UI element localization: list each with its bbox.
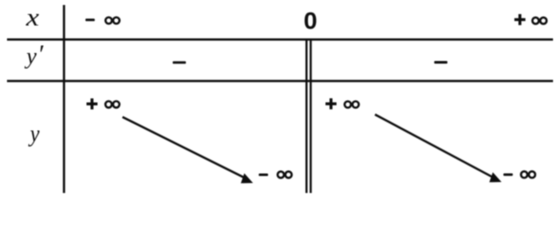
horizontal rule 1 — [7, 38, 553, 40]
svg-text:y: y — [24, 44, 37, 69]
row3 left bottom infinity symbol — [278, 172, 292, 178]
derivative right minus sign — [434, 61, 447, 64]
row3 right plus sign — [326, 98, 337, 109]
row3 right top infinity symbol — [345, 101, 359, 107]
row3 left bottom minus sign — [259, 174, 268, 177]
row1 right infinity symbol — [532, 18, 546, 24]
svg-text:y: y — [28, 121, 40, 147]
svg-text:′: ′ — [38, 40, 44, 69]
row1 left minus sign — [85, 19, 94, 22]
horizontal rule 2 — [7, 80, 553, 82]
vertical rule — [63, 5, 65, 193]
double vertical rule left stroke — [305, 39, 307, 194]
decreasing arrow right — [375, 115, 502, 183]
double vertical rule right stroke — [310, 39, 312, 194]
row3 right bottom minus sign — [503, 173, 512, 176]
row1 right plus sign — [514, 14, 525, 25]
row3 left top infinity symbol — [105, 101, 119, 107]
decreasing arrow left — [123, 117, 254, 183]
row3 right bottom infinity symbol — [521, 171, 535, 177]
row1 left infinity symbol — [106, 17, 120, 23]
row3 left plus sign — [87, 98, 98, 109]
svg-text:0: 0 — [304, 8, 318, 35]
svg-text:x: x — [25, 3, 40, 32]
derivative left minus sign — [173, 61, 186, 64]
